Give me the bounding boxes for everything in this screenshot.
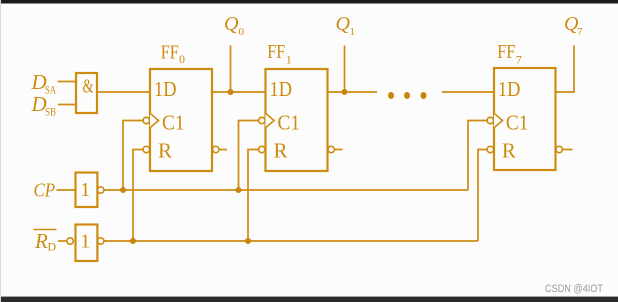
FF1 pin R with negation bubble xyxy=(259,139,288,163)
flip-flop FF7 box xyxy=(494,68,556,170)
svg-text:1D: 1D xyxy=(498,77,521,101)
junction RD-FF0 xyxy=(130,238,136,244)
svg-text:1: 1 xyxy=(80,179,90,201)
wire RD input to buffer xyxy=(58,240,67,242)
FF0 pin 1D xyxy=(154,77,177,101)
FF1 pin 1D xyxy=(270,77,293,101)
wire FF1 C1 to CP line xyxy=(239,121,259,191)
wire FF7 C1 to CP line xyxy=(468,121,487,191)
node Q7 label xyxy=(564,13,583,38)
flip-flop FF1 box xyxy=(266,69,328,171)
wire Q1 tap vertical xyxy=(344,46,346,93)
wire CP distribution line xyxy=(104,189,468,191)
svg-text:R: R xyxy=(34,229,48,253)
junction CP-FF1 xyxy=(236,187,242,193)
wire RD distribution line xyxy=(104,240,478,242)
junction CP-FF0 xyxy=(120,187,126,193)
svg-text:R: R xyxy=(502,139,516,163)
wire CP input to buffer xyxy=(57,189,76,191)
svg-text:1: 1 xyxy=(350,26,356,38)
wire FF1 Q output toward ellipsis xyxy=(328,91,378,93)
svg-text:SA: SA xyxy=(45,83,56,97)
svg-text:1: 1 xyxy=(286,52,292,66)
ellipsis continuation dots xyxy=(388,92,427,99)
FF7 pin R with negation bubble xyxy=(487,139,516,163)
svg-text:7: 7 xyxy=(577,26,583,38)
svg-text:Q: Q xyxy=(224,13,239,35)
wire AND output to FF0 1D xyxy=(97,91,150,93)
svg-text:C1: C1 xyxy=(162,110,185,134)
FF7 pin C1 with negation bubble and dynamic wedge xyxy=(487,110,528,134)
wire FF1 R to RD line xyxy=(248,150,259,242)
wire FF0 Q output to FF1 1D xyxy=(212,91,266,93)
svg-text:C1: C1 xyxy=(506,110,529,134)
flip-flop FF0 box xyxy=(150,69,212,171)
wire ellipsis to FF7 1D xyxy=(442,91,494,93)
label D_SB xyxy=(31,92,57,119)
wire Q0 tap vertical xyxy=(230,46,232,93)
FF1 pin C1 with negation bubble and dynamic wedge xyxy=(259,110,300,134)
svg-text:0: 0 xyxy=(239,26,245,38)
svg-text:CSDN @4IOT: CSDN @4IOT xyxy=(545,283,603,295)
FF0 pin C1 with negation bubble and dynamic wedge xyxy=(143,110,184,134)
FF0 Qbar output bubble xyxy=(213,146,219,152)
svg-text:FF: FF xyxy=(161,42,179,64)
svg-text:SB: SB xyxy=(45,105,56,119)
FF1 Qbar output bubble xyxy=(328,146,334,152)
wire FF0 C1 to CP line xyxy=(123,121,143,191)
svg-text:FF: FF xyxy=(267,41,285,63)
label CP xyxy=(34,180,56,202)
FF7 pin 1D xyxy=(498,77,521,101)
label D_SA xyxy=(31,70,57,97)
wire FF1 Qbar stub xyxy=(335,149,343,151)
node Q1 label xyxy=(336,13,356,38)
wire FF7 Q output up to Q7 xyxy=(556,46,575,93)
svg-text:1D: 1D xyxy=(270,77,293,101)
wire D_SA input to AND gate xyxy=(58,81,77,83)
wire D_SB input to AND gate xyxy=(58,104,76,106)
buffer gate RD driver xyxy=(67,225,104,262)
wire FF7 Qbar stub xyxy=(563,149,573,151)
svg-text:7: 7 xyxy=(516,52,522,66)
wire FF7 R to RD line xyxy=(478,150,487,242)
AND gate G1 xyxy=(76,73,97,113)
svg-text:R: R xyxy=(158,139,172,163)
svg-text:1: 1 xyxy=(80,230,90,252)
svg-text:R: R xyxy=(274,139,288,163)
wire FF0 Qbar stub xyxy=(219,149,227,151)
junction Q0 tap xyxy=(228,89,234,95)
junction RD-FF1 xyxy=(245,238,251,244)
svg-text:CP: CP xyxy=(34,180,56,202)
FF7 Qbar output bubble xyxy=(556,146,562,152)
svg-text:0: 0 xyxy=(179,52,185,66)
svg-text:FF: FF xyxy=(497,41,515,63)
svg-text:D: D xyxy=(48,240,57,254)
svg-text:C1: C1 xyxy=(278,110,301,134)
FF0 label xyxy=(161,42,185,67)
FF1 label xyxy=(267,41,291,66)
FF7 label xyxy=(497,41,521,66)
wire FF0 R to RD line xyxy=(133,150,143,242)
watermark xyxy=(545,283,603,295)
label RD with overline xyxy=(34,229,57,254)
node Q0 label xyxy=(224,13,245,38)
svg-text:1D: 1D xyxy=(154,77,177,101)
buffer gate CP driver xyxy=(76,173,104,208)
junction Q1 tap xyxy=(342,89,348,95)
svg-text:&: & xyxy=(83,77,94,98)
FF0 pin R with negation bubble xyxy=(143,139,172,163)
svg-text:Q: Q xyxy=(336,13,351,35)
